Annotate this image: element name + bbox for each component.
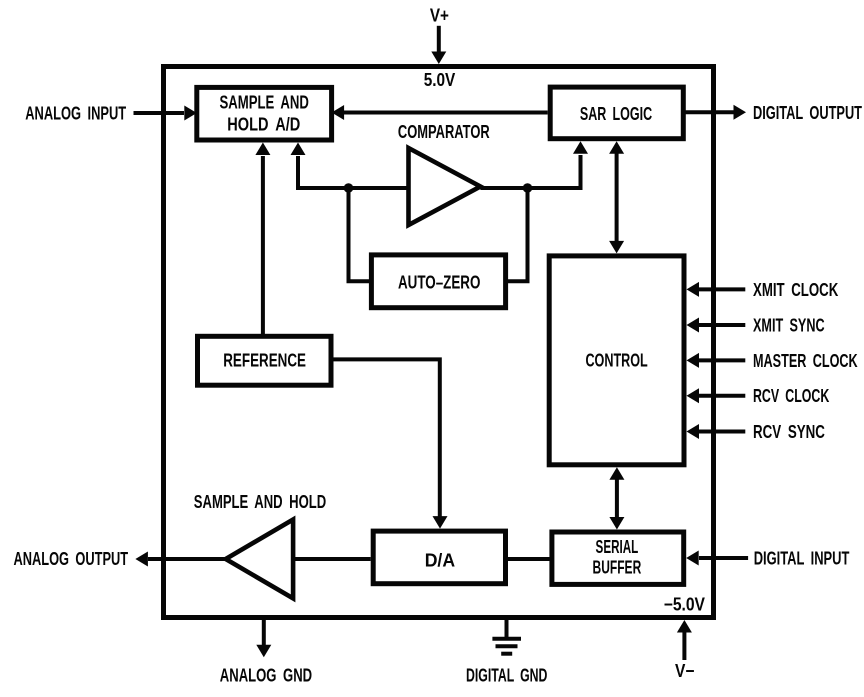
wire RCV SYNC: [698, 430, 745, 434]
arrowhead reference into sample/hold bottom: [255, 143, 270, 156]
block U5 REFERENCE: [198, 336, 332, 385]
block U7 SERIAL BUFFER: [552, 532, 684, 584]
wire comparator output net: [480, 155, 580, 188]
svg-text:DIGITAL GND: DIGITAL GND: [466, 665, 547, 685]
svg-text:SAMPLE AND: SAMPLE AND: [220, 93, 309, 113]
arrowhead bus up into CONTROL: [609, 467, 624, 480]
arrowhead digital output: [734, 105, 747, 120]
svg-text:MASTER CLOCK: MASTER CLOCK: [753, 351, 858, 371]
wire analog input: [134, 111, 185, 115]
wire analog gnd stem: [262, 618, 266, 646]
svg-text:XMIT CLOCK: XMIT CLOCK: [753, 280, 838, 300]
block U1 SAMPLE AND HOLD A/D: [197, 87, 332, 140]
svg-text:SERIAL: SERIAL: [596, 537, 639, 557]
junction dot comparator output: [523, 183, 533, 193]
svg-text:SAMPLE AND HOLD: SAMPLE AND HOLD: [194, 492, 326, 512]
chip boundary outer box: [164, 67, 714, 618]
wire comparator input net: [298, 156, 409, 188]
arrowhead V+ into chip: [431, 52, 446, 65]
svg-text:−5.0V: −5.0V: [664, 595, 705, 615]
svg-text:SAR LOGIC: SAR LOGIC: [580, 104, 652, 124]
svg-text:RCV CLOCK: RCV CLOCK: [753, 386, 829, 406]
wire auto-zero right leg: [506, 188, 528, 281]
wire RCV CLOCK: [698, 394, 745, 398]
arrowhead RCV SYNC into CONTROL: [687, 424, 700, 439]
svg-text:ANALOG OUTPUT: ANALOG OUTPUT: [14, 549, 129, 569]
op-amp comparator triangle: [409, 148, 481, 225]
wire reference to D/A: [331, 359, 440, 517]
wire D/A to output buffer: [293, 557, 371, 561]
svg-text:AUTO–ZERO: AUTO–ZERO: [398, 273, 480, 293]
arrowhead digital input into serial buffer: [686, 551, 699, 566]
svg-text:V+: V+: [430, 6, 449, 26]
svg-text:XMIT SYNC: XMIT SYNC: [753, 315, 825, 335]
block U3 AUTO-ZERO: [371, 255, 505, 308]
wire analog output: [148, 557, 226, 561]
svg-text:BUFFER: BUFFER: [593, 558, 642, 578]
arrowhead into sample/hold A/D: [184, 106, 197, 121]
op-amp sample-and-hold output buffer triangle: [226, 520, 293, 599]
svg-text:DIGITAL INPUT: DIGITAL INPUT: [754, 548, 850, 568]
arrowhead MASTER CLOCK into CONTROL: [687, 353, 700, 368]
arrowhead RCV CLOCK into CONTROL: [687, 388, 700, 403]
wire reference to sample/hold A/D: [261, 156, 265, 336]
svg-text:ANALOG INPUT: ANALOG INPUT: [25, 104, 126, 124]
svg-text:D/A: D/A: [425, 550, 455, 570]
block U2 SAR LOGIC: [550, 87, 683, 139]
ground symbol digital gnd: [492, 618, 521, 654]
wire XMIT SYNC: [698, 323, 745, 327]
arrowhead XMIT CLOCK into CONTROL: [687, 282, 700, 297]
junction dot comparator input: [344, 183, 354, 193]
arrowhead bus up into SAR LOGIC: [609, 141, 624, 154]
arrowhead comparator output into SAR LOGIC bottom: [573, 141, 588, 154]
wire CONTROL / SERIAL BUFFER bus: [615, 479, 619, 518]
wire V- supply stem: [682, 633, 686, 661]
arrowhead bus down into CONTROL: [609, 241, 624, 254]
wire digital input: [699, 556, 748, 560]
wire XMIT CLOCK: [698, 287, 745, 291]
wire digital output: [683, 110, 734, 114]
svg-text:COMPARATOR: COMPARATOR: [398, 122, 490, 142]
arrowhead reference into D/A top: [433, 516, 448, 529]
svg-text:DIGITAL OUTPUT: DIGITAL OUTPUT: [753, 103, 862, 123]
arrowhead V- into chip bottom: [677, 620, 692, 633]
arrowhead into sample/hold right side: [332, 105, 345, 120]
svg-text:RCV SYNC: RCV SYNC: [753, 422, 825, 442]
svg-text:HOLD A/D: HOLD A/D: [227, 114, 300, 134]
svg-text:CONTROL: CONTROL: [585, 350, 647, 370]
block U6 D/A: [373, 531, 505, 584]
wire auto-zero left leg: [349, 188, 372, 281]
svg-text:V−: V−: [675, 661, 695, 681]
wire SAR LOGIC / CONTROL bus: [615, 153, 619, 242]
svg-text:REFERENCE: REFERENCE: [223, 351, 306, 371]
svg-text:ANALOG GND: ANALOG GND: [220, 665, 312, 685]
arrowhead bus down into SERIAL BUFFER: [609, 517, 624, 530]
wire SAR LOGIC feedback to sample/hold A/D: [344, 111, 548, 115]
arrowhead XMIT SYNC into CONTROL: [687, 318, 700, 333]
arrowhead analog gnd: [256, 645, 271, 658]
wire MASTER CLOCK: [698, 358, 745, 362]
wire V+ supply stem: [437, 26, 441, 53]
arrowhead analog output: [135, 552, 148, 567]
block U4 CONTROL: [549, 256, 684, 465]
svg-text:5.0V: 5.0V: [424, 70, 456, 90]
arrowhead comparator-net into sample/hold bottom: [291, 143, 306, 156]
wire D/A to serial buffer: [506, 557, 552, 561]
